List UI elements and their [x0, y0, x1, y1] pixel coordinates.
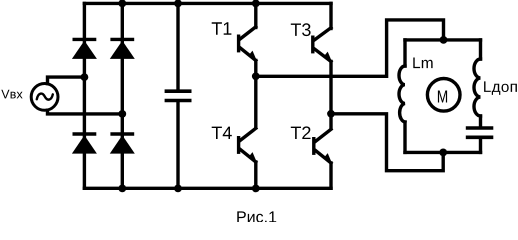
wire T3 collector [329, 3, 332, 28]
AC source Vвх [31, 84, 58, 111]
transistor T2 [314, 129, 333, 164]
label T3 [291, 23, 311, 36]
caption Рис.1 [237, 211, 276, 222]
transistor T4 [239, 128, 258, 163]
node bottom rail / C1 [174, 185, 182, 193]
wire T4 emitter [254, 162, 257, 188]
capacitor C2 (motor branch) [468, 116, 492, 152]
transistor T1 [239, 27, 258, 62]
node top rail / right diode column [118, 0, 126, 7]
transistor T3 [313, 28, 333, 63]
inductor Lдоп [474, 40, 480, 116]
wire right bridge column [121, 3, 124, 188]
label T4 [212, 127, 232, 139]
wire node A to motor box top [256, 20, 444, 76]
wire motor box bottom rail [405, 151, 481, 154]
label Lдоп [484, 81, 517, 95]
wire bottom rail [84, 187, 331, 190]
node A (T1 emitter) [252, 72, 260, 80]
node top rail / C1 [174, 0, 182, 7]
wire T1 emitter / T4 collector [254, 61, 257, 128]
label M (motor) [438, 91, 447, 103]
diode D2 (top-right) [110, 39, 135, 59]
label Lm [413, 58, 432, 69]
node B (T2 collector) [327, 110, 335, 118]
node motor box bottom [439, 149, 447, 157]
node motor box top [440, 36, 448, 44]
node bottom rail / right diode column [118, 185, 126, 193]
wire node B to motor box bottom [331, 114, 443, 171]
wire T3 emitter / T2 collector [329, 62, 332, 129]
wire left bridge column [83, 3, 86, 188]
node top rail / T1 collector [252, 0, 260, 7]
capacitor C1 (dc link) [166, 3, 189, 188]
diode D3 (bottom-left) [72, 134, 97, 154]
wire T1 collector [254, 3, 257, 27]
node AC top / left column [81, 73, 89, 81]
node AC bottom / right column [118, 110, 126, 118]
wire AC top stub [48, 77, 85, 84]
diode D4 (bottom-right) [110, 134, 135, 154]
label T1 [212, 22, 232, 34]
wire T2 emitter [329, 163, 332, 188]
node bottom rail / T4 emitter [252, 185, 260, 193]
inductor Lm [399, 40, 405, 152]
wire top rail [84, 2, 331, 5]
wire AC bottom stub [48, 110, 123, 114]
motor M [427, 79, 460, 112]
wire motor box top rail [405, 38, 481, 41]
label Vвх [1, 90, 22, 99]
diode D1 (top-left) [72, 39, 97, 59]
label T2 [291, 126, 311, 139]
